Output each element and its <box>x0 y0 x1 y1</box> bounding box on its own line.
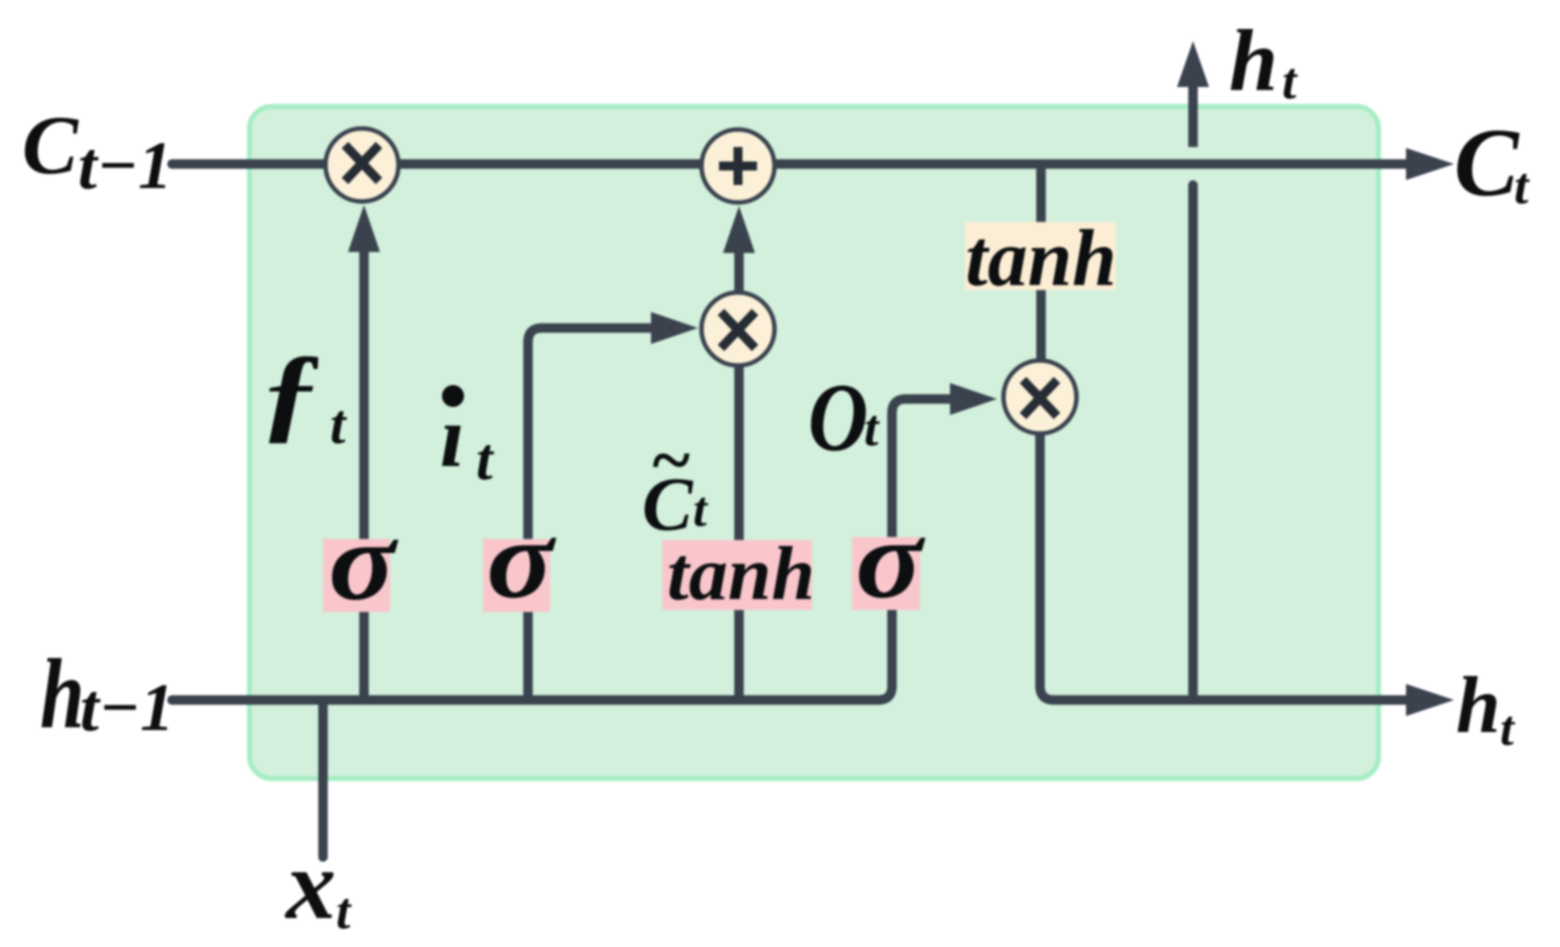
arrowhead into C_t <box>1406 148 1454 180</box>
svg-text:C: C <box>22 99 79 192</box>
wire: cell-state line C (top horizontal) <box>172 159 1407 169</box>
tanh gate label (candidate) <box>662 540 812 610</box>
wire: candidate riser tanh <box>734 367 744 700</box>
sigma1 gate label (forget) <box>323 539 390 612</box>
multiply node X1 <box>326 129 399 202</box>
wire: input-gate riser sigma2 with elbow right <box>528 328 650 700</box>
sigma3 gate label (output) <box>852 537 920 610</box>
arrowhead into multiply node X1 <box>348 205 380 252</box>
svg-text:t: t <box>1514 158 1530 215</box>
wire: output segment from X3 down and right to h_t <box>1040 432 1406 700</box>
svg-text:σ: σ <box>486 498 556 622</box>
sigma2 gate label (input) <box>483 539 550 612</box>
arrowhead into h_t (right) <box>1406 684 1454 716</box>
svg-text:t−1: t−1 <box>78 127 172 203</box>
svg-text:~: ~ <box>650 420 691 500</box>
wire: X2 to plus node <box>734 252 744 292</box>
svg-text:t: t <box>476 426 495 492</box>
svg-text:t: t <box>693 481 709 537</box>
multiply node X3 <box>1004 361 1077 434</box>
multiply node X2 <box>702 293 775 366</box>
tanh label (cell output squash) <box>965 222 1116 290</box>
svg-text:h: h <box>40 638 84 750</box>
wire: h_t riser (below C line) <box>1188 185 1198 700</box>
svg-text:σ: σ <box>855 498 925 622</box>
arrowhead into multiply node X2 <box>651 312 698 344</box>
svg-text:x: x <box>284 829 336 940</box>
arrowhead into multiply node X3 <box>950 383 997 415</box>
svg-text:t−1: t−1 <box>80 669 174 745</box>
arrowhead h_t top <box>1177 41 1209 87</box>
plus node <box>702 130 775 203</box>
svg-text:t: t <box>330 394 347 456</box>
svg-text:t: t <box>1500 700 1516 756</box>
svg-text:tanh: tanh <box>965 215 1116 303</box>
wire: forget-gate riser sigma1 <box>359 252 369 700</box>
wire: C line drop through tanh to X3 <box>1036 166 1046 362</box>
wire: h_t riser (above C line) <box>1188 86 1198 147</box>
svg-text:t: t <box>864 400 880 457</box>
LSTM cell body <box>250 107 1379 779</box>
svg-text:t: t <box>336 883 352 940</box>
svg-text:h: h <box>1456 662 1501 750</box>
arrowhead into plus node <box>723 206 755 253</box>
svg-text:t: t <box>1282 53 1298 110</box>
svg-text:O: O <box>808 363 868 472</box>
svg-text:σ: σ <box>328 500 398 624</box>
svg-text:ƒ: ƒ <box>259 332 323 452</box>
svg-text:C: C <box>1454 109 1520 216</box>
wire: hidden-state input line h_t-1 with elbow up into sigma3 riser <box>172 399 950 700</box>
wire: x_t drop <box>318 700 328 857</box>
svg-text:h: h <box>1229 13 1278 110</box>
